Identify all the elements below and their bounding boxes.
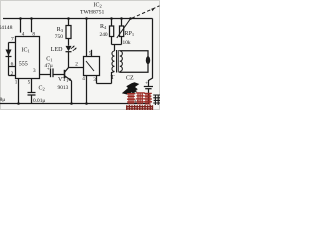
svg-text:C1: C1 [46,57,52,63]
svg-text:3: 3 [33,68,36,74]
svg-text:+: + [145,81,148,87]
svg-text:9013: 9013 [58,85,69,91]
svg-text:TWH8751: TWH8751 [80,10,104,16]
svg-text:R3: R3 [57,27,64,33]
svg-text:8μ: 8μ [0,97,5,103]
svg-text:4: 4 [22,32,25,38]
svg-text:555: 555 [19,61,28,67]
svg-text:2: 2 [11,71,14,77]
svg-text:47μ: 47μ [45,63,53,69]
svg-text:0.01μ: 0.01μ [33,98,45,104]
svg-text:C2: C2 [39,85,45,91]
svg-text:RP1: RP1 [125,31,135,37]
svg-text:240: 240 [100,32,108,38]
svg-text:R4: R4 [100,24,107,30]
svg-text:2: 2 [75,62,78,68]
svg-text:IC1: IC1 [22,48,30,54]
svg-text:750: 750 [55,34,63,40]
svg-text:7: 7 [11,37,14,43]
svg-text:LED: LED [51,47,63,53]
svg-text:T: T [111,75,115,81]
svg-text:6: 6 [11,62,14,68]
svg-text:N4148: N4148 [0,25,13,31]
svg-text:8: 8 [32,32,35,38]
svg-text:5: 5 [89,51,92,57]
svg-text:5: 5 [28,80,31,86]
svg-text:3: 3 [93,77,96,83]
svg-text:IC2: IC2 [94,3,102,9]
svg-text:4: 4 [82,76,85,82]
svg-text:10k: 10k [123,40,131,46]
svg-text:VT1: VT1 [58,77,68,83]
svg-text:CZ: CZ [126,76,134,82]
svg-text:1: 1 [15,80,18,86]
